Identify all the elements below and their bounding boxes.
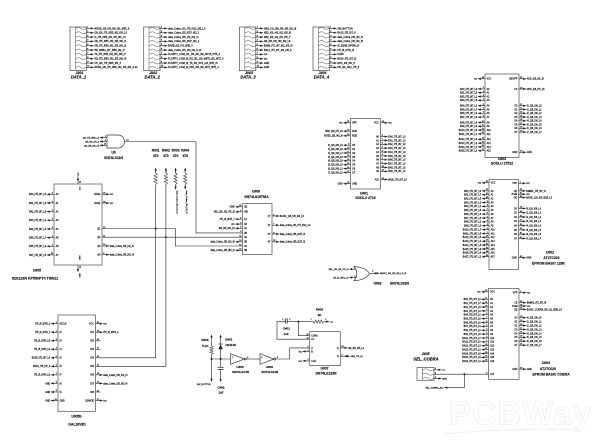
- svg-text:data_Cobra_I35_I60_I4: data_Cobra_I35_I60_I4: [103, 382, 128, 385]
- svg-text:6: 6: [257, 48, 258, 50]
- svg-text:8: 8: [330, 57, 331, 59]
- svg-text:DATA_3: DATA_3: [240, 75, 256, 80]
- svg-text:I1/CLK: I1/CLK: [60, 324, 67, 326]
- svg-text:3Y: 3Y: [268, 234, 271, 236]
- resistor R#02 470: [162, 148, 170, 184]
- svg-text:BA0_I75_I67_L0: BA0_I75_I67_L0: [388, 135, 406, 138]
- svg-text:I75_I8_I67N_7: I75_I8_I67N_7: [220, 219, 236, 221]
- svg-text:1A: 1A: [244, 218, 247, 221]
- svg-text:17: 17: [520, 123, 522, 125]
- svg-text:BA3_I75_I67_L6: BA3_I75_I67_L6: [460, 99, 478, 102]
- svg-text:vcc: vcc: [110, 203, 114, 205]
- svg-text:I0_I26_I06_L0: I0_I26_I06_L0: [527, 106, 542, 108]
- svg-text:5: 5: [52, 193, 53, 195]
- svg-text:data_Cobra_I35_I637_I62_2: data_Cobra_I35_I637_I62_2: [168, 40, 200, 43]
- svg-text:VCC: VCC: [78, 187, 80, 192]
- svg-text:12: 12: [97, 390, 99, 392]
- svg-text:GND: GND: [45, 392, 50, 394]
- svg-text:BA12_I75_I67_L3: BA12_I75_I67_L3: [462, 345, 481, 348]
- svg-text:BA14_I75_I67_L8: BA14_I75_I67_L8: [462, 352, 481, 355]
- svg-text:1: 1: [330, 27, 331, 29]
- svg-text:A5: A5: [490, 318, 494, 321]
- svg-text:14: 14: [482, 138, 484, 140]
- svg-text:O2: O2: [514, 217, 518, 219]
- svg-text:FLOPPY_COM_I6_T5_I62_I671_I26_: FLOPPY_COM_I6_T5_I62_I671_I26_I675_I6: [168, 62, 218, 65]
- svg-text:BA11_I75_I67_L1: BA11_I75_I67_L1: [459, 133, 478, 136]
- svg-text:GND: GND: [527, 152, 532, 154]
- svg-text:28: 28: [485, 344, 487, 346]
- svg-text:4: 4: [277, 357, 278, 359]
- svg-text:20: 20: [520, 87, 522, 89]
- svg-text:A15: A15: [487, 150, 492, 153]
- svg-text:PGM: PGM: [512, 306, 517, 308]
- svg-text:26: 26: [486, 243, 488, 245]
- svg-text:VCC: VCC: [374, 123, 379, 125]
- svg-text:7: 7: [273, 224, 274, 226]
- svg-text:A2: A2: [491, 197, 495, 200]
- svg-text:A4: A4: [490, 314, 494, 317]
- svg-text:GND: GND: [45, 383, 50, 385]
- svg-text:3: 3: [52, 227, 53, 229]
- svg-text:16: 16: [347, 167, 349, 169]
- svg-text:14: 14: [520, 151, 522, 153]
- wire junction to SEL_COBRA_A17 label: [425, 374, 464, 389]
- svg-text:2: 2: [161, 31, 162, 33]
- svg-text:4Y: 4Y: [268, 242, 271, 244]
- svg-text:1B: 1B: [244, 224, 247, 226]
- svg-text:BA10_I75_I67_L0: BA10_I75_I67_L0: [388, 178, 407, 181]
- svg-text:O2: O2: [514, 325, 518, 327]
- svg-text:BA5_I75_I67_L7: BA5_I75_I67_L7: [460, 108, 478, 111]
- svg-text:BA4_I75_I67_L2: BA4_I75_I67_L2: [460, 105, 478, 108]
- svg-text:2: 2: [307, 350, 308, 352]
- svg-text:BASIC_I26_I05_I62_L5_I3: BASIC_I26_I05_I62_L5_I3: [380, 272, 407, 275]
- svg-text:4: 4: [273, 214, 274, 216]
- svg-text:9: 9: [273, 232, 274, 234]
- svg-text:A1: A1: [491, 194, 495, 197]
- svg-text:BA2_I75_I67_L6: BA2_I75_I67_L6: [29, 210, 47, 213]
- svg-text:U#08: U#08: [236, 365, 244, 369]
- svg-text:BA9_I75_I67_L0: BA9_I75_I67_L0: [464, 333, 482, 336]
- svg-text:17: 17: [97, 348, 99, 350]
- svg-text:A5: A5: [376, 155, 380, 158]
- svg-text:O7: O7: [514, 345, 518, 347]
- svg-text:12: 12: [486, 189, 488, 191]
- svg-text:B: B: [311, 351, 313, 353]
- svg-text:data_Cobra_I35_I037_I62_2: data_Cobra_I35_I037_I62_2: [168, 32, 200, 35]
- svg-text:A6: A6: [490, 321, 494, 324]
- svg-text:SODLU 2716: SODLU 2716: [355, 196, 375, 200]
- wire junction down to U#07 pin Cx/Rx: [298, 322, 309, 336]
- svg-text:11: 11: [97, 399, 99, 401]
- svg-text:I30_I75_I655_I62_I05_I66_I1: I30_I75_I655_I62_I05_I66_I1: [94, 40, 126, 43]
- svg-text:U#06: U#06: [252, 190, 260, 194]
- svg-text:BA5_I75_I67_L6: BA5_I75_I67_L6: [388, 155, 406, 158]
- svg-text:A5: A5: [491, 209, 495, 212]
- svg-text:I6_I26_I06_L6: I6_I26_I06_L6: [527, 128, 542, 130]
- svg-text:1: 1: [487, 232, 488, 234]
- svg-text:BA12_I75_I67_I62_I05_6: BA12_I75_I67_I62_I05_6: [264, 49, 292, 52]
- junction D#01 node: [220, 358, 222, 360]
- svg-text:AT27C020: AT27C020: [540, 367, 556, 371]
- wire U#05 Q2 to U#06 pin 3A: [102, 236, 243, 238]
- svg-text:I75_I5_I67N_L6: I75_I5_I67N_L6: [34, 375, 51, 377]
- svg-text:I26_I75_I655_L4: I26_I75_I655_L4: [83, 137, 100, 139]
- svg-text:A7: A7: [490, 325, 494, 328]
- svg-text:I6: I6: [60, 366, 63, 368]
- svg-text:IO4: IO4: [90, 358, 94, 360]
- svg-text:3: 3: [161, 35, 162, 37]
- svg-text:O4: O4: [514, 121, 518, 123]
- svg-text:11: 11: [482, 125, 484, 127]
- svg-text:BM#01_I75_I67_I4: BM#01_I75_I67_I4: [526, 191, 546, 193]
- svg-text:3: 3: [56, 339, 57, 341]
- svg-text:2: 2: [486, 336, 487, 338]
- svg-text:U#08: U#08: [266, 365, 274, 369]
- svg-text:BA10_I75_I67_L7: BA10_I75_I67_L7: [462, 337, 481, 340]
- svg-text:A16: A16: [491, 252, 496, 255]
- svg-text:A2: A2: [487, 95, 491, 98]
- wire inverter output to U#07 pin A: [276, 348, 310, 359]
- svg-text:5: 5: [330, 44, 331, 46]
- svg-text:A15: A15: [491, 248, 496, 251]
- svg-text:7: 7: [382, 139, 383, 141]
- svg-text:1: 1: [105, 136, 106, 138]
- svg-text:BA14_I75_I67_L7: BA14_I75_I67_L7: [459, 146, 478, 149]
- svg-text:I75_I8_I67N_I6: I75_I8_I67N_I6: [337, 49, 354, 52]
- svg-text:I7_I26_I06_L7: I7_I26_I06_L7: [527, 132, 542, 134]
- svg-text:7: 7: [161, 53, 162, 55]
- svg-text:A0: A0: [491, 190, 495, 193]
- svg-text:BA3_I75_I67_L3: BA3_I75_I67_L3: [464, 310, 482, 313]
- svg-text:32: 32: [485, 290, 487, 292]
- svg-text:24: 24: [485, 360, 487, 362]
- svg-text:25: 25: [485, 356, 487, 358]
- svg-text:SN74LS14N: SN74LS14N: [261, 370, 278, 374]
- op-amp U9 SN74LS11N 3-input AND gate: [83, 135, 129, 160]
- svg-text:3: 3: [240, 222, 241, 224]
- svg-text:BA13_I75_I67_6: BA13_I75_I67_6: [337, 32, 356, 35]
- svg-text:BA2_I75_I67_L6: BA2_I75_I67_L6: [388, 143, 406, 146]
- svg-text:O5: O5: [514, 230, 518, 232]
- svg-text:A6: A6: [376, 159, 380, 162]
- svg-text:A6: A6: [491, 213, 495, 216]
- svg-text:T0_I75_I655_I62_I05_I66_I7: T0_I75_I655_I62_I05_I66_I7: [94, 53, 126, 56]
- svg-text:1uF: 1uF: [284, 332, 289, 336]
- svg-text:20: 20: [347, 134, 349, 136]
- svg-text:IO6: IO6: [90, 375, 94, 377]
- svg-text:A7: A7: [56, 254, 60, 257]
- svg-text:11: 11: [485, 301, 487, 303]
- svg-text:BA17_I75_I67_L2: BA17_I75_I67_L2: [463, 256, 482, 259]
- svg-text:17: 17: [347, 171, 349, 173]
- svg-text:BA16_I75_I67_L4: BA16_I75_I67_L4: [462, 360, 481, 363]
- svg-text:11: 11: [520, 104, 522, 106]
- svg-text:13: 13: [239, 249, 241, 251]
- svg-text:SW_BUTTON: SW_BUTTON: [197, 384, 211, 386]
- svg-text:BA2_I75_I67_L5: BA2_I75_I67_L5: [464, 306, 482, 309]
- svg-text:DATA_2: DATA_2: [145, 75, 161, 80]
- wire C#01 right to R#05 junction: [287, 321, 298, 323]
- svg-text:BM#01_I75_I67_I6: BM#01_I75_I67_I6: [527, 303, 547, 305]
- svg-text:A1: A1: [376, 139, 380, 142]
- svg-text:8: 8: [483, 112, 484, 114]
- svg-text:6: 6: [487, 212, 488, 214]
- svg-text:BA8_I75_I67_L2: BA8_I75_I67_L2: [464, 329, 482, 332]
- resistor R#06 5.1K pull-up: [201, 335, 213, 359]
- svg-text:I75_I8_I67N_7: I75_I8_I67N_7: [35, 332, 51, 334]
- svg-text:GND: GND: [60, 400, 65, 402]
- svg-text:IO3: IO3: [90, 349, 94, 351]
- svg-text:7: 7: [330, 53, 331, 55]
- svg-text:A11: A11: [487, 133, 492, 136]
- svg-text:3: 3: [372, 271, 373, 273]
- svg-text:1: 1: [52, 245, 53, 247]
- svg-text:A7: A7: [491, 217, 495, 220]
- svg-text:2: 2: [257, 31, 258, 33]
- svg-text:NCE1: NCE1: [94, 203, 101, 205]
- svg-text:A14: A14: [491, 244, 496, 247]
- svg-text:I4_I26_I06_L4: I4_I26_I06_L4: [526, 225, 541, 227]
- svg-text:I35_I75_I655_I62_I05_I66_I2: I35_I75_I655_I62_I05_I66_I2: [94, 45, 126, 48]
- svg-text:I2_I26_I06_L2: I2_I26_I06_L2: [527, 325, 542, 327]
- svg-text:GND: GND: [264, 66, 270, 69]
- svg-text:OE/VPP: OE/VPP: [509, 79, 518, 81]
- svg-text:18: 18: [103, 201, 105, 203]
- svg-text:1: 1: [282, 319, 283, 321]
- svg-text:vcc: vcc: [298, 361, 302, 363]
- svg-text:SODLU 27512: SODLU 27512: [491, 162, 513, 166]
- svg-text:2: 2: [325, 319, 326, 321]
- svg-text:20: 20: [97, 322, 99, 324]
- svg-text:vcc: vcc: [526, 194, 530, 196]
- svg-text:1: 1: [354, 268, 355, 270]
- svg-text:13: 13: [342, 346, 344, 348]
- svg-text:16: 16: [97, 356, 99, 358]
- junction C#01/R#05 node: [297, 321, 299, 323]
- svg-text:data_Cobra_I35_I46_I0: data_Cobra_I35_I46_I0: [337, 36, 363, 39]
- svg-text:18: 18: [520, 127, 522, 129]
- svg-text:Cx: Cx: [311, 339, 315, 341]
- svg-text:I26_I05_I06_L5: I26_I05_I06_L5: [219, 228, 236, 230]
- svg-text:9: 9: [56, 390, 57, 392]
- svg-text:CLR: CLR: [311, 361, 316, 363]
- svg-text:A7: A7: [487, 116, 491, 119]
- svg-text:data_Cobra_I35_I02_I0: data_Cobra_I35_I02_I0: [211, 241, 236, 244]
- svg-text:O4: O4: [352, 161, 356, 163]
- svg-text:19: 19: [520, 228, 522, 230]
- svg-text:CS: CS: [514, 89, 518, 91]
- svg-text:3: 3: [483, 91, 484, 93]
- inverter U#08 SN74LS14N (first): [231, 354, 249, 375]
- svg-text:1: 1: [257, 27, 258, 29]
- resistor R#01 470: [152, 148, 160, 184]
- svg-text:data_Cobra_I35_I60_I4: data_Cobra_I35_I60_I4: [110, 253, 135, 256]
- svg-text:A/B: A/B: [244, 211, 248, 214]
- IC U#05b GAL16V8D: [32, 315, 128, 427]
- svg-text:9: 9: [87, 61, 88, 63]
- svg-text:A2: A2: [490, 306, 494, 309]
- svg-text:GND: GND: [512, 369, 517, 371]
- svg-text:5: 5: [240, 227, 241, 229]
- svg-text:BA0_I75_I67_L0: BA0_I75_I67_L0: [464, 298, 482, 301]
- svg-text:8: 8: [56, 382, 57, 384]
- svg-text:OE: OE: [514, 197, 518, 199]
- svg-text:470: 470: [173, 154, 179, 158]
- svg-text:A13: A13: [490, 348, 495, 351]
- svg-text:C#01: C#01: [283, 326, 291, 330]
- svg-text:DATA_1: DATA_1: [71, 75, 87, 80]
- svg-text:BA16_I75_I67_L4: BA16_I75_I67_L4: [463, 252, 482, 255]
- svg-text:2: 2: [56, 331, 57, 333]
- svg-text:6: 6: [87, 48, 88, 50]
- svg-text:AT27C020: AT27C020: [543, 256, 559, 260]
- svg-text:14: 14: [520, 211, 522, 213]
- svg-text:16: 16: [520, 367, 522, 369]
- svg-text:3A: 3A: [244, 236, 247, 239]
- svg-text:2B: 2B: [244, 233, 247, 235]
- inverter U#08 SN74LS14N (second): [260, 354, 278, 375]
- svg-text:14: 14: [520, 320, 522, 322]
- svg-text:82S126N KP556PT4 TW621: 82S126N KP556PT4 TW621: [12, 276, 58, 280]
- svg-text:A10: A10: [490, 337, 495, 340]
- svg-text:470: 470: [163, 154, 169, 158]
- svg-text:BA1_I75_I67_L3: BA1_I75_I67_L3: [29, 202, 47, 205]
- svg-text:2K: 2K: [318, 313, 323, 317]
- svg-text:BA4_I75_I67_L4: BA4_I75_I67_L4: [29, 228, 47, 231]
- svg-text:I70_I26_I75_I655_I62_3: I70_I26_I75_I655_I62_3: [94, 62, 121, 65]
- svg-text:A4: A4: [56, 228, 60, 231]
- svg-text:I5_I26_I06_L0: I5_I26_I06_L0: [328, 165, 343, 167]
- svg-text:SN74LS123N: SN74LS123N: [316, 371, 337, 375]
- svg-text:R#06: R#06: [201, 338, 209, 342]
- svg-text:O1: O1: [352, 149, 356, 151]
- svg-text:O4: O4: [514, 333, 518, 335]
- svg-text:13: 13: [520, 316, 522, 318]
- connector J#01 DATA_1: [70, 27, 138, 80]
- svg-text:O5: O5: [514, 124, 518, 126]
- junction R#06 node: [211, 358, 213, 360]
- svg-text:22: 22: [520, 77, 522, 79]
- svg-text:A0: A0: [487, 88, 491, 91]
- svg-text:7: 7: [483, 108, 484, 110]
- svg-text:Q2: Q2: [97, 237, 101, 239]
- svg-text:18: 18: [520, 332, 522, 334]
- svg-text:A3: A3: [491, 201, 495, 204]
- svg-text:28: 28: [482, 77, 484, 79]
- svg-text:4: 4: [382, 150, 383, 152]
- svg-text:5: 5: [487, 216, 488, 218]
- svg-text:U#02: U#02: [546, 250, 554, 254]
- svg-text:vcc: vcc: [527, 306, 531, 308]
- svg-text:SW_BUTTON: SW_BUTTON: [337, 27, 352, 30]
- svg-text:18: 18: [347, 130, 349, 132]
- svg-text:17: 17: [520, 328, 522, 330]
- svg-text:VCC: VCC: [491, 183, 496, 185]
- svg-text:O7: O7: [352, 172, 356, 174]
- svg-text:data_Cobra_I35_I52_I5: data_Cobra_I35_I52_I5: [337, 40, 363, 43]
- svg-text:U9: U9: [111, 151, 115, 155]
- svg-text:SEL_I26_I32_I75_I6: SEL_I26_I32_I75_I6: [214, 212, 236, 214]
- svg-text:BA12_I75_I67_L3: BA12_I75_I67_L3: [463, 236, 482, 239]
- svg-text:Q: Q: [337, 348, 339, 350]
- wire U9 output to U#06 pin 2B: [125, 142, 243, 233]
- svg-text:4: 4: [56, 348, 57, 350]
- svg-text:BA9_I75_I67_L0: BA9_I75_I67_L0: [388, 170, 406, 173]
- svg-text:A6: A6: [56, 245, 60, 248]
- svg-text:U#05b: U#05b: [71, 414, 81, 418]
- svg-text:BA9_I75_I67_L0: BA9_I75_I67_L0: [460, 125, 478, 128]
- svg-text:O5: O5: [514, 337, 518, 339]
- svg-text:23: 23: [382, 166, 384, 168]
- svg-text:8: 8: [257, 57, 258, 59]
- svg-text:4: 4: [257, 40, 258, 42]
- svg-text:15: 15: [306, 334, 308, 336]
- svg-text:O7: O7: [514, 238, 518, 240]
- svg-text:2: 2: [382, 158, 383, 160]
- svg-text:NCE2: NCE2: [94, 194, 101, 196]
- svg-text:21: 21: [520, 237, 522, 239]
- svg-text:10: 10: [161, 66, 163, 68]
- svg-text:GND: GND: [526, 258, 531, 260]
- svg-text:BA10_I75_I67_L5: BA10_I75_I67_L5: [459, 129, 478, 132]
- svg-text:BASIC_I26_I05_I62_L5: BASIC_I26_I05_I62_L5: [280, 215, 305, 218]
- svg-text:I26_I05_I06_L5: I26_I05_I06_L5: [84, 145, 100, 147]
- svg-text:data_Cobra_I35_I60_I4: data_Cobra_I35_I60_I4: [211, 249, 236, 252]
- svg-text:3: 3: [307, 359, 308, 361]
- svg-text:5: 5: [382, 146, 383, 148]
- capacitor C#01: [282, 318, 290, 336]
- svg-text:I2_I26_I06_L2: I2_I26_I06_L2: [527, 113, 542, 115]
- svg-text:I6_I26_I06_L1: I6_I26_I06_L1: [328, 168, 343, 170]
- svg-text:5: 5: [87, 44, 88, 46]
- svg-text:O1: O1: [514, 109, 518, 111]
- svg-text:BA3_I75_I67_L3: BA3_I75_I67_L3: [464, 201, 482, 204]
- svg-text:12: 12: [485, 298, 487, 300]
- svg-text:A4: A4: [376, 151, 380, 154]
- svg-text:BA12_I75_I67_L6: BA12_I75_I67_L6: [459, 138, 478, 141]
- svg-text:FLOPPY_COM_I41_I46_I60_I62_I67: FLOPPY_COM_I41_I46_I60_I62_I6715_I675_3: [168, 53, 221, 56]
- svg-text:A5: A5: [56, 236, 60, 239]
- svg-text:EPROM BASIC COBRA: EPROM BASIC COBRA: [532, 372, 570, 376]
- svg-text:A3: A3: [487, 99, 491, 102]
- svg-text:20: 20: [520, 233, 522, 235]
- svg-text:3B: 3B: [244, 242, 247, 244]
- svg-text:16: 16: [482, 145, 484, 147]
- svg-text:NPD_I26_I75_L6: NPD_I26_I75_L6: [325, 131, 343, 133]
- svg-text:I8: I8: [60, 383, 63, 385]
- svg-text:2A: 2A: [244, 227, 247, 230]
- svg-text:A12: A12: [491, 236, 496, 239]
- watermark PCBWay: [444, 395, 593, 435]
- IC U#03 SODLU 27512 EPROM: [459, 74, 545, 166]
- svg-text:data_Cobra_I35_I02_I0: data_Cobra_I35_I02_I0: [103, 374, 128, 377]
- svg-text:4B: 4B: [244, 250, 247, 252]
- svg-text:vcc: vcc: [264, 58, 268, 61]
- svg-text:C#02: C#02: [217, 385, 225, 389]
- svg-text:24: 24: [486, 251, 488, 253]
- svg-text:O0: O0: [352, 145, 356, 147]
- svg-text:BA16_I75_I67_6: BA16_I75_I67_6: [33, 365, 51, 368]
- svg-text:BA8_I75_I67_L2: BA8_I75_I67_L2: [464, 221, 482, 224]
- svg-text:vcc: vcc: [110, 194, 114, 196]
- svg-text:21: 21: [347, 121, 349, 123]
- svg-text:data_Cobra_I35_I037_I3: data_Cobra_I35_I037_I3: [280, 233, 306, 236]
- svg-text:I3: I3: [60, 341, 63, 343]
- svg-text:O6: O6: [514, 341, 518, 343]
- svg-text:4: 4: [52, 219, 53, 221]
- svg-text:1uF: 1uF: [219, 391, 224, 395]
